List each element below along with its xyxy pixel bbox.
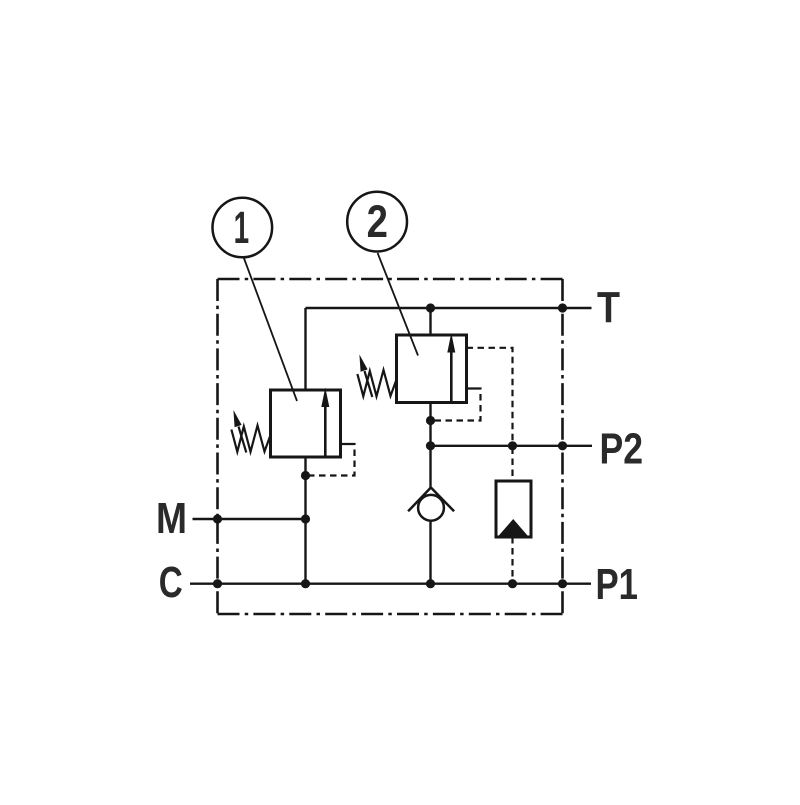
svg-text:1: 1 xyxy=(234,202,250,253)
svg-text:M: M xyxy=(156,495,187,543)
svg-text:P2: P2 xyxy=(600,425,644,473)
svg-text:C: C xyxy=(159,559,183,607)
svg-text:T: T xyxy=(597,284,620,332)
svg-text:P1: P1 xyxy=(596,561,639,609)
svg-text:2: 2 xyxy=(367,196,388,247)
